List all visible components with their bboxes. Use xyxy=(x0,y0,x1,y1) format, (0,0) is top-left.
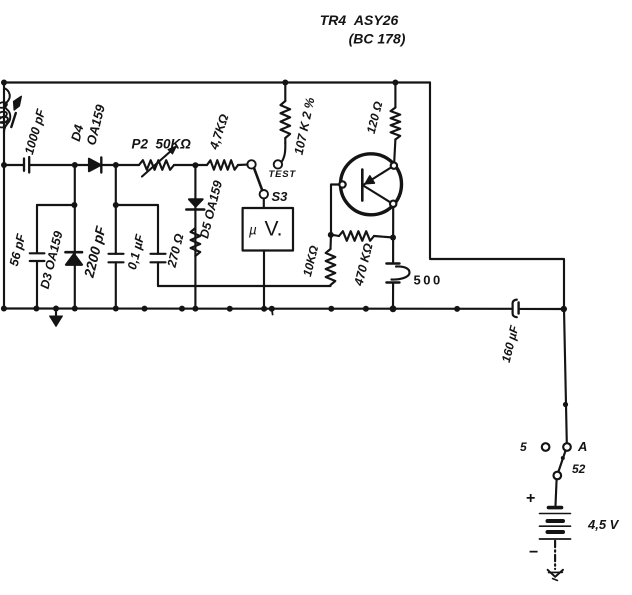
svg-text:0,1 µF: 0,1 µF xyxy=(125,233,147,271)
svg-text:10KΩ: 10KΩ xyxy=(300,244,321,278)
svg-text:500: 500 xyxy=(414,273,443,288)
svg-text:A: A xyxy=(577,439,587,454)
svg-text:5: 5 xyxy=(520,440,527,454)
svg-text:−: − xyxy=(529,544,538,561)
svg-text:160 µF: 160 µF xyxy=(499,323,522,364)
svg-text:OA159: OA159 xyxy=(83,102,108,146)
svg-text:56 pF: 56 pF xyxy=(7,232,29,267)
svg-text:120 Ω: 120 Ω xyxy=(364,99,386,135)
svg-text:µ: µ xyxy=(249,223,257,238)
svg-text:52: 52 xyxy=(572,462,586,476)
svg-text:S3: S3 xyxy=(272,189,289,204)
svg-text:V.: V. xyxy=(265,218,283,241)
svg-text:107 K 2 %: 107 K 2 % xyxy=(292,96,318,156)
svg-text:2200 pF: 2200 pF xyxy=(80,224,108,280)
svg-text:4,7KΩ: 4,7KΩ xyxy=(207,112,232,152)
svg-text:TR4 ASY26: TR4 ASY26 xyxy=(320,12,399,28)
svg-text:270 Ω: 270 Ω xyxy=(164,232,186,270)
svg-text:+: + xyxy=(526,490,535,507)
svg-text:(BC 178): (BC 178) xyxy=(349,31,406,47)
svg-text:1000 pF: 1000 pF xyxy=(22,107,48,156)
svg-text:4,5 V: 4,5 V xyxy=(587,517,620,532)
svg-text:TEST: TEST xyxy=(269,169,297,180)
svg-text:470 KΩ: 470 KΩ xyxy=(351,242,375,288)
svg-text:P2 50KΩ: P2 50KΩ xyxy=(132,137,192,152)
